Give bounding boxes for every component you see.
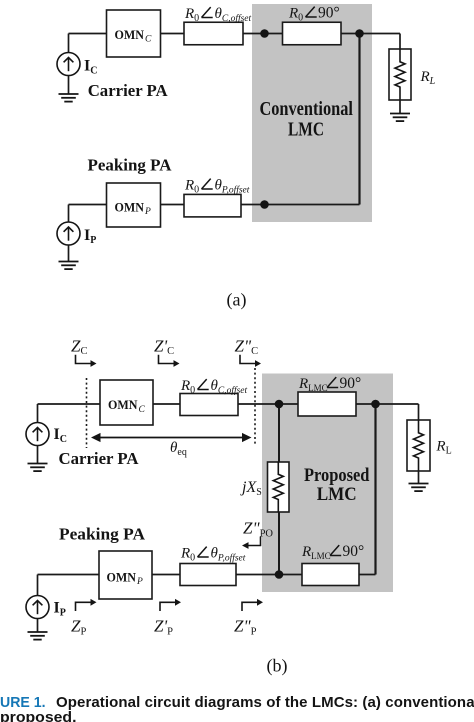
svg-text:Peaking PA: Peaking PA — [59, 525, 146, 544]
svg-text:Operational circuit diagrams o: Operational circuit diagrams of the LMCs… — [56, 694, 474, 711]
svg-text:OMN: OMN — [107, 569, 137, 584]
svg-text:(a): (a) — [227, 290, 247, 311]
svg-text:LMC: LMC — [317, 484, 357, 505]
svg-text:Proposed: Proposed — [304, 465, 370, 486]
svg-text:OMN: OMN — [108, 397, 138, 412]
svg-text:(b): (b) — [267, 656, 288, 677]
svg-text:90°: 90° — [343, 543, 365, 560]
svg-text:90°: 90° — [340, 375, 362, 392]
svg-text:Carrier PA: Carrier PA — [88, 81, 169, 100]
svg-text:LMC: LMC — [288, 119, 324, 141]
svg-text:OMN: OMN — [115, 27, 145, 42]
svg-text:proposed.: proposed. — [0, 709, 77, 722]
svg-text:P: P — [144, 207, 151, 217]
svg-text:C: C — [145, 35, 152, 45]
svg-text:OMN: OMN — [115, 199, 145, 214]
svg-text:Peaking PA: Peaking PA — [88, 156, 173, 175]
svg-text:P: P — [136, 577, 143, 587]
svg-text:C: C — [139, 405, 146, 415]
svg-text:Carrier PA: Carrier PA — [59, 449, 140, 468]
svg-text:90°: 90° — [318, 5, 340, 22]
svg-text:Conventional: Conventional — [259, 98, 353, 120]
